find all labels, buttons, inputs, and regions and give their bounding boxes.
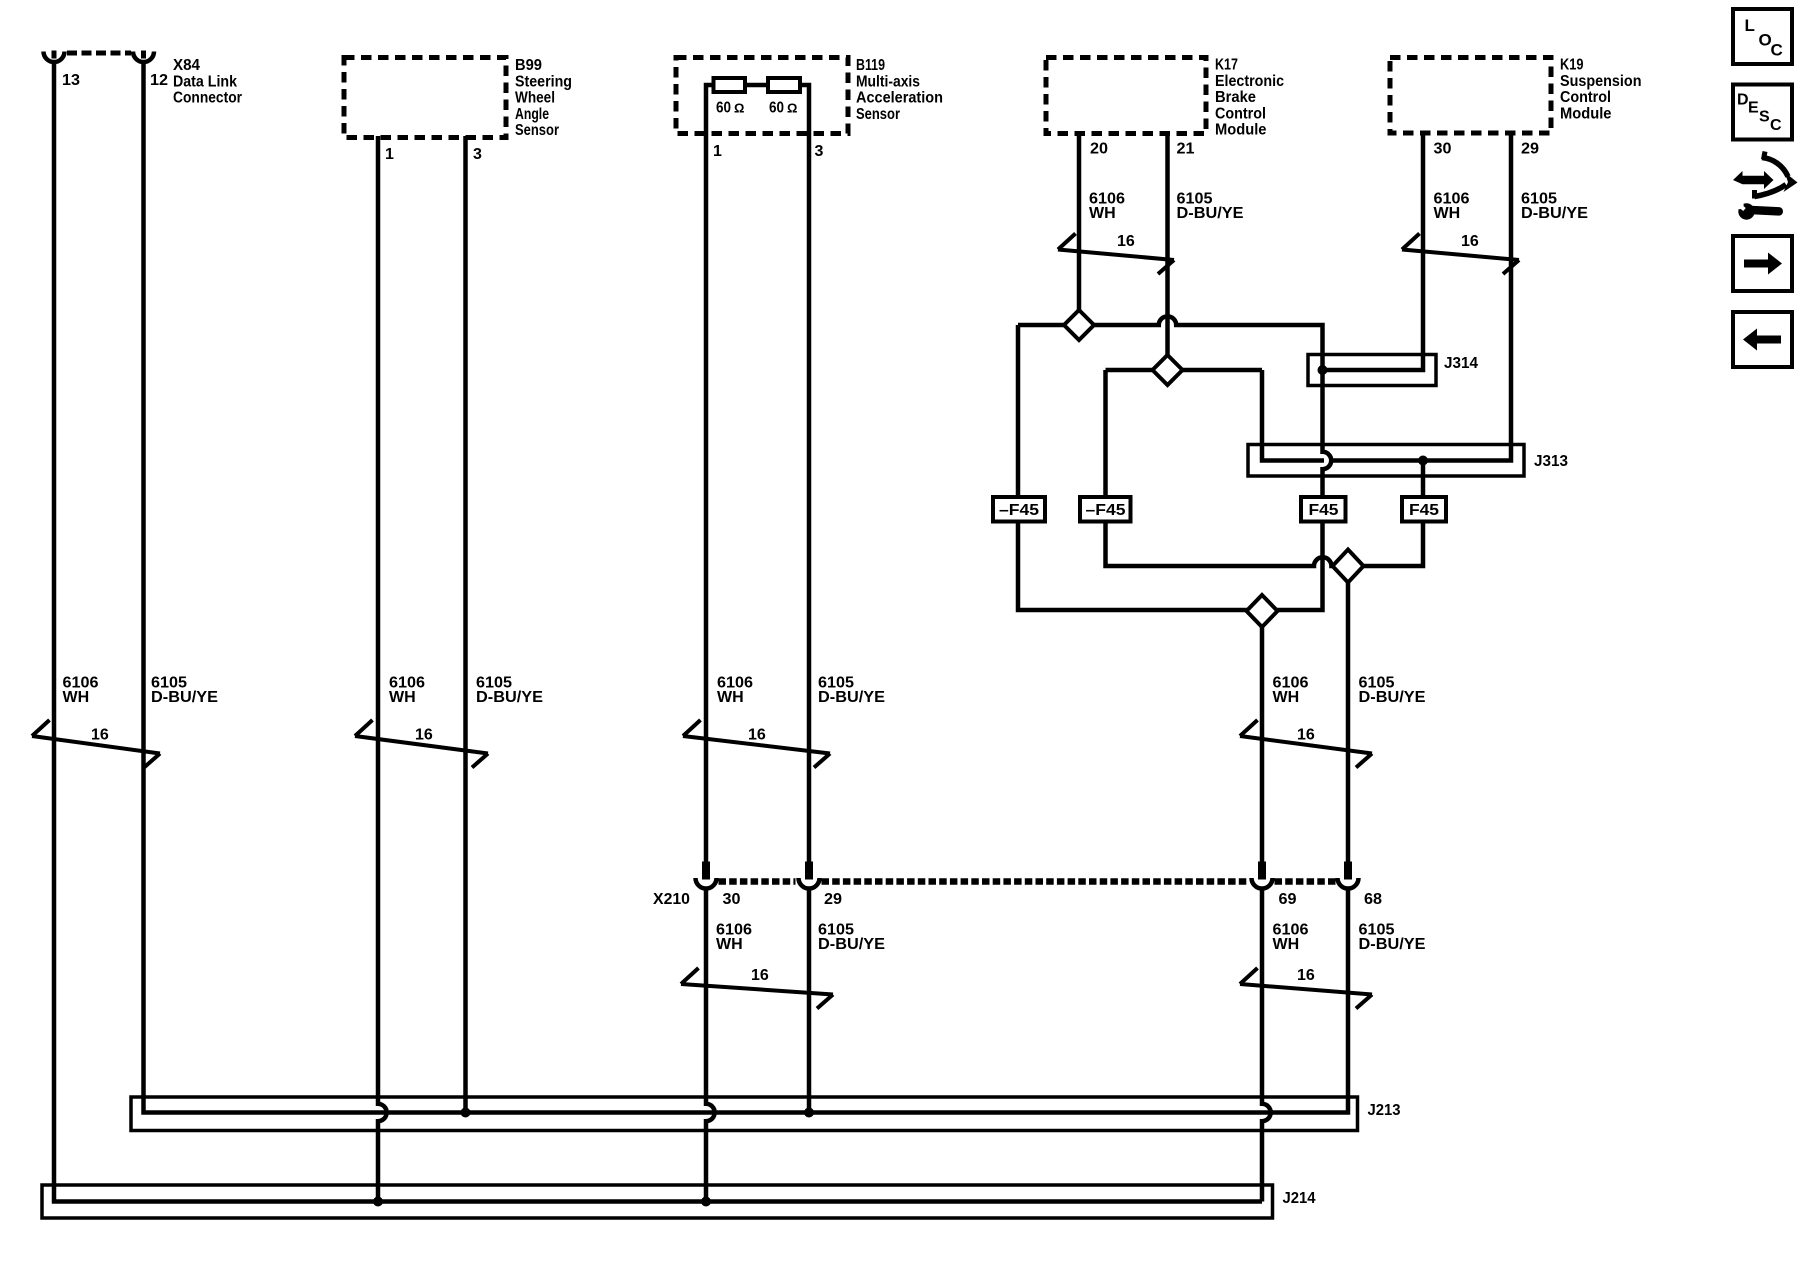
svg-text:12: 12 bbox=[150, 72, 168, 89]
wire below fuses 1 and 3 joining at lower splice diamond bbox=[1018, 522, 1323, 611]
svg-text:13: 13 bbox=[62, 72, 80, 89]
svg-text:L: L bbox=[1745, 16, 1755, 35]
svg-text:WH: WH bbox=[717, 689, 744, 706]
wire splice diamond horizontal 6105 bbox=[1106, 368, 1263, 373]
svg-text:J314: J314 bbox=[1444, 355, 1478, 372]
svg-text:S: S bbox=[1759, 109, 1770, 126]
svg-text:WH: WH bbox=[389, 689, 416, 706]
svg-text:29: 29 bbox=[824, 891, 842, 908]
svg-text:29: 29 bbox=[1521, 141, 1539, 158]
resistor 60 ohm no.1 bbox=[714, 78, 746, 92]
svg-text:WH: WH bbox=[1089, 205, 1116, 222]
connector box J313 bbox=[1248, 445, 1524, 477]
svg-text:69: 69 bbox=[1279, 891, 1297, 908]
svg-text:Sensor: Sensor bbox=[856, 106, 900, 123]
junction dot J313 splice bbox=[1418, 456, 1428, 466]
svg-text:D-BU/YE: D-BU/YE bbox=[1359, 936, 1426, 953]
gauge marker 16 left pair bbox=[32, 720, 160, 768]
svg-text:68: 68 bbox=[1364, 891, 1382, 908]
svg-text:Module: Module bbox=[1560, 105, 1612, 122]
svg-text:Acceleration: Acceleration bbox=[856, 90, 943, 107]
wire diamond D3 down to X210 pin68 bbox=[1346, 566, 1351, 862]
svg-text:WH: WH bbox=[1273, 936, 1300, 953]
component box B99 Steering Wheel Angle Sensor (dashed) bbox=[344, 58, 506, 138]
junction dot J213 bus at B99 pin3 wire bbox=[461, 1108, 471, 1118]
service icon: wrench bbox=[1738, 203, 1754, 219]
svg-text:X210: X210 bbox=[653, 891, 690, 908]
dashed link X84 bbox=[67, 51, 131, 56]
svg-text:Control: Control bbox=[1215, 105, 1266, 122]
svg-text:B119: B119 bbox=[856, 57, 885, 74]
svg-text:1: 1 bbox=[713, 143, 722, 160]
fuse box -F45 no.2 bbox=[1080, 497, 1131, 522]
svg-text:60: 60 bbox=[769, 100, 784, 117]
service icon: curved outline arrow bbox=[1762, 158, 1788, 177]
svg-text:WH: WH bbox=[716, 936, 743, 953]
connector X210 terminal pin30 (cup with stub) bbox=[702, 862, 710, 880]
connector box J314 bbox=[1308, 355, 1436, 386]
svg-text:20: 20 bbox=[1090, 141, 1108, 158]
wire left branch down to fuse -F45 no.1 bbox=[1016, 325, 1021, 497]
svg-text:Module: Module bbox=[1215, 122, 1267, 139]
svg-text:1: 1 bbox=[385, 146, 394, 163]
gauge marker 16 K19 bbox=[1402, 234, 1519, 275]
svg-text:Suspension: Suspension bbox=[1560, 73, 1642, 90]
svg-text:Control: Control bbox=[1560, 89, 1611, 106]
svg-text:Wheel: Wheel bbox=[515, 90, 555, 107]
gauge marker 16 B99 pair bbox=[355, 720, 488, 768]
gauge marker 16 below X210 left bbox=[681, 968, 833, 1009]
svg-text:Ω: Ω bbox=[734, 101, 744, 116]
splice diamond D3 bbox=[1333, 550, 1364, 583]
svg-text:K19: K19 bbox=[1560, 57, 1584, 74]
component box K19 Suspension Control Module (dashed) bbox=[1390, 58, 1551, 134]
wire inside B119 linking pin1 and pin3 through resistors bbox=[706, 85, 809, 136]
connector X210 terminal pin68 (cup with stub) bbox=[1344, 862, 1352, 880]
svg-text:K17: K17 bbox=[1215, 57, 1238, 74]
svg-text:WH: WH bbox=[63, 689, 90, 706]
svg-text:Angle: Angle bbox=[515, 106, 549, 123]
svg-text:16: 16 bbox=[748, 727, 766, 744]
svg-text:B99: B99 bbox=[515, 57, 542, 74]
svg-text:Multi-axis: Multi-axis bbox=[856, 73, 920, 90]
connector X210 terminal pin69 (cup with stub) bbox=[1258, 862, 1266, 880]
wire J313 tap down to fuse F45 no.4 bbox=[1421, 461, 1426, 498]
wire K17 pin20 down to splice diamond (6106 WH) bbox=[1077, 134, 1082, 325]
wire diamond D4 down to X210 pin69 bbox=[1260, 611, 1265, 862]
component box K17 Electronic Brake Control Module (dashed) bbox=[1046, 58, 1206, 134]
wire B119 pin1 down to X210 pin30 (6106 WH) bbox=[704, 136, 709, 862]
svg-text:30: 30 bbox=[723, 891, 741, 908]
svg-text:60: 60 bbox=[716, 100, 731, 117]
service icon: double arrow bbox=[1733, 171, 1774, 189]
svg-text:F45: F45 bbox=[1309, 502, 1339, 519]
svg-text:16: 16 bbox=[1297, 727, 1315, 744]
gauge marker 16 K17 bbox=[1058, 234, 1174, 275]
wire left branch down to fuse -F45 no.2 bbox=[1103, 370, 1108, 497]
svg-text:F45: F45 bbox=[1409, 502, 1439, 519]
svg-text:30: 30 bbox=[1434, 141, 1452, 158]
wire below fuses 2 and 4 with hop, joining at lower splice diamond bbox=[1106, 522, 1424, 567]
wire J313 internal line right part up to K19 pin29 (6105 D-BU/YE) bbox=[1332, 134, 1512, 461]
junction dot J214 bus at B99 pin1 wire bbox=[373, 1197, 383, 1207]
splice diamond D1 bbox=[1064, 310, 1094, 340]
svg-text:D-BU/YE: D-BU/YE bbox=[151, 689, 218, 706]
fuse box -F45 no.1 bbox=[993, 497, 1045, 522]
dashed link X210 bbox=[719, 878, 796, 885]
connector box J214 bbox=[42, 1185, 1273, 1218]
svg-text:Ω: Ω bbox=[787, 101, 797, 116]
svg-text:16: 16 bbox=[91, 727, 109, 744]
legend box arrow left bbox=[1733, 312, 1792, 367]
fuse box F45 no.3 bbox=[1301, 497, 1346, 522]
junction dot J314 splice bbox=[1318, 365, 1328, 375]
svg-text:Brake: Brake bbox=[1215, 89, 1256, 106]
connector X84 terminal pin12 (cup) bbox=[133, 52, 154, 63]
svg-text:E: E bbox=[1748, 100, 1759, 117]
legend box LOC bbox=[1733, 9, 1792, 64]
svg-text:3: 3 bbox=[473, 146, 482, 163]
legend box DESC bbox=[1733, 85, 1792, 140]
svg-text:Steering: Steering bbox=[515, 73, 572, 90]
wire X84 pin12 down to J213 bus then up to X210 pin68 (6105 D-BU/YE) bbox=[144, 64, 1349, 1113]
connector box J213 bbox=[131, 1097, 1358, 1131]
svg-text:X84: X84 bbox=[173, 57, 200, 74]
svg-text:16: 16 bbox=[1117, 233, 1135, 250]
svg-text:16: 16 bbox=[1297, 967, 1315, 984]
svg-text:D-BU/YE: D-BU/YE bbox=[476, 689, 543, 706]
svg-text:C: C bbox=[1771, 41, 1783, 60]
wire X210 pin30 down to J214 with hop over J213 bus (6106 WH) bbox=[706, 889, 715, 1202]
svg-text:Data Link: Data Link bbox=[173, 73, 237, 90]
svg-text:WH: WH bbox=[1434, 205, 1461, 222]
gauge marker 16 B119 pair bbox=[683, 720, 830, 768]
component box B119 Multi-axis Acceleration Sensor (dashed) bbox=[676, 58, 848, 134]
svg-text:WH: WH bbox=[1273, 689, 1300, 706]
wire from splice diamond right with hop over pin21 wire, down through J314 and J313 to fuse F45 bbox=[1018, 316, 1331, 497]
wire diamond2 right branch into J313 internal line left part bbox=[1262, 370, 1324, 461]
splice diamond D2 bbox=[1153, 355, 1183, 385]
svg-text:D-BU/YE: D-BU/YE bbox=[1177, 205, 1244, 222]
gauge marker 16 right pair bbox=[1240, 720, 1372, 768]
svg-text:Sensor: Sensor bbox=[515, 122, 559, 139]
svg-text:D-BU/YE: D-BU/YE bbox=[818, 689, 885, 706]
junction dot J213 bus at X210 pin29 wire bbox=[804, 1108, 814, 1118]
svg-text:16: 16 bbox=[1461, 233, 1479, 250]
svg-text:C: C bbox=[1770, 117, 1782, 134]
svg-text:16: 16 bbox=[415, 727, 433, 744]
resistor 60 ohm no.2 bbox=[768, 78, 800, 92]
splice diamond D4 bbox=[1247, 595, 1278, 627]
wire X210 pin29 down to J213 bus (6105 D-BU/YE) bbox=[807, 889, 812, 1113]
gauge marker 16 below X210 right bbox=[1240, 968, 1372, 1009]
svg-text:J313: J313 bbox=[1534, 453, 1568, 470]
svg-text:–F45: –F45 bbox=[999, 502, 1039, 519]
svg-text:Electronic: Electronic bbox=[1215, 73, 1284, 90]
svg-text:D: D bbox=[1737, 92, 1749, 109]
svg-text:D-BU/YE: D-BU/YE bbox=[1359, 689, 1426, 706]
junction dot J214 bus at X210 pin30 wire bbox=[701, 1197, 711, 1207]
wire X210 pin69 down to J214 bus with hop over J213 bus (6106 WH) bbox=[1262, 889, 1271, 1202]
connector X84 terminal pin13 (cup) bbox=[44, 52, 65, 63]
wire X84 pin13 down to J214 bus (6106 WH) bbox=[54, 64, 1262, 1202]
svg-text:J213: J213 bbox=[1368, 1102, 1401, 1119]
svg-text:J214: J214 bbox=[1283, 1190, 1316, 1207]
wire J314 internal line to K19 pin30 (6106 WH) bbox=[1323, 134, 1424, 370]
wire B119 pin3 down to X210 pin29 (6105 D-BU/YE) bbox=[807, 136, 812, 862]
svg-text:D-BU/YE: D-BU/YE bbox=[1521, 205, 1588, 222]
svg-text:D-BU/YE: D-BU/YE bbox=[818, 936, 885, 953]
legend box arrow right bbox=[1733, 236, 1792, 291]
svg-text:3: 3 bbox=[815, 143, 824, 160]
wire B99 pin1 down to J214 with hop over J213 bus (6106 WH) bbox=[378, 136, 387, 1202]
svg-text:21: 21 bbox=[1177, 141, 1195, 158]
wire B99 pin3 down to J213 bus (6105 D-BU/YE) bbox=[463, 136, 468, 1113]
fuse box F45 no.4 bbox=[1402, 497, 1446, 522]
svg-text:Connector: Connector bbox=[173, 90, 242, 107]
svg-text:–F45: –F45 bbox=[1086, 502, 1126, 519]
connector X210 terminal pin29 (cup with stub) bbox=[805, 862, 813, 880]
wire K17 pin21 down to splice diamond (6105 D-BU/YE) bbox=[1165, 134, 1170, 370]
svg-text:16: 16 bbox=[751, 967, 769, 984]
